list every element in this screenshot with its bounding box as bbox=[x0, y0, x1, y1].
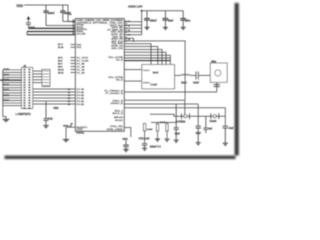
wire bbox=[124, 44, 151, 65]
wire bbox=[124, 47, 158, 65]
wire VDD rail bbox=[24, 5, 75, 22]
wire node rail bbox=[151, 121, 176, 123]
svg-text:42: 42 bbox=[128, 29, 130, 32]
svg-text:P0.7B: P0.7B bbox=[77, 89, 84, 91]
svg-text:220uF X 3: 220uF X 3 bbox=[150, 147, 162, 149]
wire bbox=[27, 34, 75, 36]
svg-text:0.7k3/1k: 0.7k3/1k bbox=[177, 121, 187, 123]
wire bbox=[184, 100, 186, 116]
resistor R5 bbox=[166, 124, 168, 131]
ground bbox=[163, 27, 168, 29]
svg-text:4.3u0: 4.3u0 bbox=[160, 121, 166, 124]
ground bbox=[145, 27, 150, 29]
ferrite bead FB1 bbox=[182, 113, 190, 119]
svg-text:TXA_OUT/B: TXA_OUT/B bbox=[108, 76, 123, 79]
speaker LS1 bbox=[210, 63, 227, 82]
ground bbox=[3, 119, 10, 121]
wire bbox=[150, 114, 225, 116]
inductor L1 20uH bbox=[143, 70, 150, 71]
svg-text:XOSC_B: XOSC_B bbox=[113, 100, 124, 102]
wire bbox=[27, 31, 75, 33]
ground bbox=[223, 143, 228, 145]
svg-text:VDD: VDD bbox=[122, 138, 127, 141]
capacitor 220uF on AVDD rail bbox=[146, 11, 148, 28]
svg-text:P1_3B: P1_3B bbox=[77, 69, 85, 71]
svg-text:P0.5B: P0.5B bbox=[77, 95, 84, 97]
wire bbox=[124, 70, 142, 82]
bus bbox=[3, 70, 6, 120]
U1 left pins group A bbox=[72, 19, 91, 35]
inductor L2 3.3uH bbox=[143, 82, 150, 83]
svg-text:(7R(1_OK): (7R(1_OK) bbox=[110, 126, 123, 128]
U1 right pin stubs bbox=[124, 21, 127, 41]
wire bbox=[0, 79, 22, 81]
wire bbox=[124, 99, 185, 101]
capacitor C14 VDD bulk bbox=[123, 141, 129, 150]
U1 right pin labels bottom bbox=[104, 76, 123, 131]
resistor network RN1 bbox=[42, 70, 50, 87]
svg-text:M1CA_D: M1CA_D bbox=[113, 112, 124, 115]
svg-text:21 19: 21 19 bbox=[58, 47, 64, 49]
svg-text:3.3p: 3.3p bbox=[48, 118, 53, 120]
svg-text:OC5C2(: OC5C2( bbox=[76, 132, 84, 134]
capacitor C3 10uF electrolytic bbox=[27, 16, 31, 19]
inductor L3 10uH bbox=[181, 74, 190, 75]
wire bbox=[124, 52, 166, 64]
ground bbox=[165, 139, 170, 141]
svg-text:43: 43 bbox=[128, 34, 130, 37]
svg-text:XDAT0: XDAT0 bbox=[3, 68, 9, 71]
svg-text:AVD_C3X: AVD_C3X bbox=[111, 47, 123, 50]
svg-text:4.3u0: 4.3u0 bbox=[147, 128, 153, 131]
svg-text:P0.3B: P0.3B bbox=[77, 101, 84, 103]
wire J1 left harness bbox=[3, 70, 22, 106]
wire bbox=[190, 74, 196, 76]
svg-text:MIR/A2: MIR/A2 bbox=[114, 116, 123, 119]
wire bbox=[124, 107, 225, 109]
svg-text:40: 40 bbox=[128, 20, 130, 23]
svg-text:M1A_1: M1A_1 bbox=[115, 109, 124, 112]
wire bbox=[144, 131, 146, 143]
svg-text:10uF: 10uF bbox=[168, 20, 174, 22]
svg-text:L GND/TEST1: L GND/TEST1 bbox=[16, 114, 32, 116]
U1 left pins group B bbox=[58, 44, 82, 49]
svg-text:41: 41 bbox=[128, 25, 130, 28]
ground bbox=[174, 140, 179, 142]
wire AVDD rail bbox=[142, 10, 184, 12]
svg-text:P1_5B: P1_5B bbox=[77, 63, 85, 65]
svg-text:D2 11: D2 11 bbox=[58, 72, 64, 74]
svg-text:4.3uHr: 4.3uHr bbox=[210, 120, 217, 123]
svg-text:100nF: 100nF bbox=[48, 12, 55, 15]
U1 right pin numbers bbox=[128, 20, 130, 41]
junction bbox=[141, 10, 143, 12]
svg-text:4.6uF: 4.6uF bbox=[193, 81, 200, 84]
svg-text:D3 10: D3 10 bbox=[58, 69, 64, 71]
wire bbox=[175, 74, 182, 76]
polarity marks bbox=[214, 85, 220, 87]
svg-text:XDAT4: XDAT4 bbox=[3, 89, 9, 92]
svg-text:AVSS_LRB(G: AVSS_LRB(G bbox=[107, 128, 123, 131]
svg-text:3.3uH: 3.3uH bbox=[150, 83, 157, 86]
svg-text:RX_B: RX_B bbox=[116, 80, 123, 82]
svg-text:200x: 200x bbox=[211, 61, 217, 63]
wire bbox=[33, 71, 42, 83]
svg-text:P1_2B: P1_2B bbox=[77, 72, 85, 74]
capacitor C11 4uF bbox=[203, 116, 208, 133]
svg-text:220u: 220u bbox=[185, 20, 191, 22]
capacitor C15 220uF x3 bbox=[142, 144, 147, 149]
svg-text:13uF: 13uF bbox=[175, 133, 181, 135]
capacitor C10 33uF bbox=[196, 126, 201, 142]
svg-text:XDAT5: XDAT5 bbox=[3, 94, 9, 97]
svg-text:XDAT1: XDAT1 bbox=[3, 73, 9, 76]
ground bbox=[65, 127, 67, 139]
svg-text:20uH: 20uH bbox=[153, 72, 159, 75]
wire bbox=[124, 60, 170, 62]
wire bbox=[224, 108, 226, 126]
svg-text:23: 23 bbox=[72, 33, 74, 35]
IC U1 bbox=[75, 19, 124, 132]
wire bbox=[63, 21, 76, 23]
connector J1 bbox=[22, 68, 33, 109]
svg-text:RX_B: RX_B bbox=[116, 60, 123, 62]
wire bbox=[124, 103, 198, 105]
wire bbox=[197, 104, 199, 126]
ground bbox=[43, 126, 49, 128]
svg-text:PC_Y/WOSC_B: PC_Y/WOSC_B bbox=[104, 90, 123, 92]
U1 left pins group D bbox=[33, 89, 85, 106]
svg-text:P1_TLI6D: P1_TLI6D bbox=[77, 60, 89, 62]
ground bbox=[123, 149, 129, 151]
svg-text:VTD-1.8V: VTD-1.8V bbox=[139, 138, 150, 141]
svg-text:P1_4B: P1_4B bbox=[77, 65, 85, 68]
wire bbox=[46, 25, 75, 27]
wire bbox=[124, 55, 170, 64]
svg-text:10uH: 10uH bbox=[181, 82, 187, 84]
svg-text:220uF: 220uF bbox=[150, 20, 157, 22]
svg-text:M1A/1: M1A/1 bbox=[115, 119, 123, 122]
U1 right pin labels top bbox=[88, 19, 124, 61]
ground bbox=[155, 139, 160, 141]
wire bbox=[216, 82, 218, 92]
wire bbox=[124, 128, 131, 138]
svg-text:33uF: 33uF bbox=[196, 133, 202, 135]
wire bbox=[124, 50, 162, 65]
capacitor 10uF on AVDD rail bbox=[164, 11, 166, 28]
capacitor C9 13uF bbox=[174, 104, 179, 140]
svg-text:AVDD LRV: AVDD LRV bbox=[128, 5, 143, 9]
wire bbox=[124, 38, 133, 42]
ground bbox=[181, 27, 186, 29]
ground bbox=[142, 148, 147, 150]
wire bbox=[26, 32, 28, 35]
svg-text:P0.2B: P0.2B bbox=[77, 104, 84, 106]
resistor R3 bbox=[143, 124, 145, 131]
svg-text:40: 40 bbox=[71, 122, 73, 125]
ferrite bead FB2 bbox=[211, 113, 219, 119]
capacitor C1 100nF bbox=[45, 5, 47, 26]
svg-text:C/VD: C/VD bbox=[77, 129, 83, 131]
svg-text:SCLKB: SCLKB bbox=[77, 33, 86, 35]
wire bbox=[124, 91, 217, 93]
capacitor 220u on AVDD rail bbox=[182, 11, 184, 28]
capacitor C8 4.7uF bbox=[196, 72, 210, 80]
capacitor C4 3.3pF bbox=[44, 102, 49, 126]
svg-text:P0.6B: P0.6B bbox=[77, 92, 84, 94]
filter module FL1 bbox=[142, 65, 175, 89]
svg-text:VDD: VDD bbox=[53, 107, 58, 110]
wire bbox=[28, 27, 75, 29]
capacitor C2 220uF bbox=[62, 5, 64, 22]
svg-text:14u7: 14u7 bbox=[229, 127, 235, 130]
svg-text:SXOSC_B: SXOSC_B bbox=[111, 103, 123, 105]
svg-text:XDAT3: XDAT3 bbox=[3, 84, 9, 87]
svg-text:PT_X0/OSC_H: PT_X0/OSC_H bbox=[105, 93, 123, 95]
U1 left pins group C bbox=[58, 57, 89, 74]
svg-text:P1_YU7D: P1_YU7D bbox=[77, 57, 89, 59]
svg-text:XDAT6: XDAT6 bbox=[3, 99, 9, 102]
svg-text:P0.4B: P0.4B bbox=[77, 97, 84, 100]
resistor R4 bbox=[156, 124, 158, 131]
svg-text:VDD: VDD bbox=[16, 4, 24, 8]
svg-text:4uF: 4uF bbox=[208, 128, 213, 131]
wire bbox=[124, 41, 185, 100]
capacitor C12 14uF bbox=[223, 126, 228, 143]
wire bbox=[124, 57, 170, 59]
ground bbox=[196, 143, 201, 145]
wire comb bbox=[124, 11, 142, 35]
